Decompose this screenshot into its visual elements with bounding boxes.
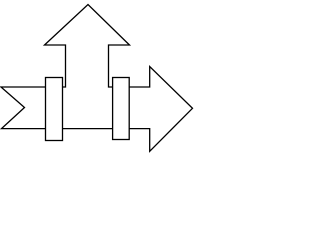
merged up-arrow and right-arrow union outline	[1, 5, 193, 152]
left rectangle	[46, 78, 63, 141]
right rectangle	[113, 78, 130, 140]
